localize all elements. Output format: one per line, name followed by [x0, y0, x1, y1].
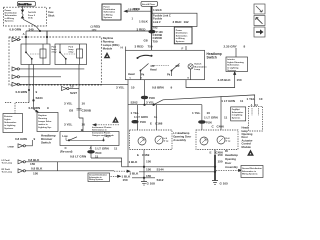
svg-text:Wiring Systems: Wiring Systems	[89, 178, 103, 181]
svg-text:Off: Off	[151, 64, 155, 68]
svg-text:1 BLK: 1 BLK	[153, 8, 163, 12]
labels on dimmer feed	[64, 101, 92, 131]
exterior lights note box	[3, 114, 23, 133]
svg-text:Distribution: Distribution	[104, 8, 116, 11]
headlamp dimmer switch label	[41, 133, 56, 144]
relay 1 box	[21, 44, 50, 65]
warning triangle DRL	[104, 52, 111, 58]
svg-text:Module: Module	[242, 145, 252, 149]
dashed arrow from ground box	[111, 174, 132, 182]
svg-text:Opening: Opening	[225, 157, 236, 161]
svg-text:0.8 LT GRN: 0.8 LT GRN	[70, 154, 86, 158]
svg-text:A: A	[23, 32, 25, 36]
wire down to Rt door C456	[212, 96, 225, 130]
headlamp opening door actuator dashed box	[249, 104, 263, 131]
svg-text:Lights Dimming: Lights Dimming	[227, 61, 244, 64]
svg-text:150: 150	[146, 168, 151, 172]
svg-text:15 A: 15 A	[28, 17, 33, 20]
svg-text:C456: C456	[217, 125, 225, 129]
svg-text:relay: relay	[52, 50, 58, 53]
fusible link callout box	[152, 13, 198, 26]
svg-text:Wiring Systems: Wiring Systems	[242, 173, 258, 176]
thick ground wire right	[214, 150, 223, 181]
svg-text:(Re-used): (Re-used)	[60, 149, 72, 153]
svg-text:10: 10	[207, 111, 211, 115]
arrow 18 RED into note box	[124, 7, 150, 20]
connector P100 on feed	[149, 30, 164, 34]
actuator label column	[242, 126, 253, 149]
headlamp dimmer switch box	[60, 132, 119, 146]
svg-text:Schematics: Schematics	[104, 11, 116, 14]
svg-text:10: 10	[259, 97, 263, 101]
svg-text:G 108: G 108	[147, 181, 156, 185]
dimmer terminals	[60, 146, 118, 153]
svg-text:(1 RED): (1 RED)	[91, 24, 101, 28]
svg-text:9: 9	[47, 106, 49, 110]
svg-text:9: 9	[171, 85, 173, 89]
svg-text:3 RED: 3 RED	[137, 27, 147, 31]
svg-text:C169: C169	[142, 153, 150, 157]
svg-text:11: 11	[95, 154, 99, 158]
instrument cluster note	[92, 126, 115, 137]
Rt headlamp opening door assembly dashed box	[196, 130, 238, 150]
relay 2 coil	[77, 44, 83, 65]
thick feed wire 3 RED	[151, 6, 153, 50]
svg-text:S234: S234	[36, 96, 43, 100]
switch bottom terminal letters	[130, 78, 190, 80]
svg-text:Daytime: Daytime	[103, 36, 114, 40]
hot at all times box middle	[141, 1, 158, 6]
svg-text:4.35 BLK: 4.35 BLK	[218, 78, 232, 82]
svg-text:Block: Block	[48, 15, 55, 17]
feed wire labels	[134, 7, 189, 44]
feed dots on DRL box edge	[25, 31, 48, 45]
CHMSL connector	[8, 137, 36, 149]
svg-text:11: 11	[114, 146, 118, 150]
svg-text:9: 9	[34, 137, 36, 141]
DRL module dashed box	[9, 37, 101, 85]
connector triangle row3	[12, 75, 61, 79]
relay 2 box	[55, 44, 87, 65]
svg-text:Switch: Switch	[207, 56, 217, 60]
svg-text:G8: G8	[69, 109, 73, 113]
warning triangle instrument	[112, 117, 119, 123]
ground distribution note box right	[241, 166, 263, 178]
connector triangle top left	[12, 38, 21, 42]
svg-text:in Lighting: in Lighting	[232, 114, 243, 117]
svg-text:Turn Lamp: Turn Lamp	[2, 161, 13, 164]
wire E C168 to Lt door	[150, 105, 163, 130]
svg-text:in Wiring: in Wiring	[5, 18, 15, 20]
svg-text:3 YEL: 3 YEL	[64, 123, 73, 127]
svg-text:3 RED: 3 RED	[135, 45, 145, 49]
connector triangle S227	[62, 85, 80, 95]
svg-text:1 YEL: 1 YEL	[247, 97, 256, 101]
svg-text:Distribution: Distribution	[5, 12, 18, 15]
svg-text:Headlamp: Headlamp	[225, 153, 238, 157]
switch contact 1	[128, 64, 157, 81]
svg-text:Opening Door: Opening Door	[173, 134, 191, 138]
power distribution note box right of feed	[174, 27, 192, 44]
svg-text:150: 150	[237, 78, 242, 82]
svg-text:Running: Running	[38, 118, 48, 120]
wire 2.35 GRY 8	[224, 44, 246, 57]
svg-text:Off: Off	[176, 64, 180, 68]
svg-text:E: E	[210, 151, 212, 155]
hot at all times box left	[17, 1, 35, 6]
svg-text:Pk: Pk	[141, 72, 145, 76]
svg-text:Lamps Sche-: Lamps Sche-	[38, 121, 52, 123]
svg-text:3 YEL: 3 YEL	[146, 100, 155, 104]
svg-text:Systems: Systems	[104, 16, 113, 19]
svg-text:Systems: Systems	[4, 127, 14, 130]
svg-text:Schematics: Schematics	[4, 121, 17, 124]
relay 2 contact	[59, 44, 76, 65]
svg-text:RED: RED	[134, 7, 141, 11]
long ground wire L1	[122, 166, 215, 168]
Rt door motor 1	[200, 137, 208, 145]
relay 2 inner label	[69, 46, 75, 54]
svg-text:in Lighting: in Lighting	[4, 124, 16, 127]
dimmer A wire with P100	[70, 146, 122, 167]
power distribution note left	[5, 10, 18, 23]
svg-text:S144: S144	[157, 167, 164, 171]
dashed arrow into L2	[114, 170, 139, 176]
svg-text:C168: C168	[155, 122, 163, 126]
wire Rt box bottom to thick ground	[214, 150, 216, 156]
svg-text:F: F	[182, 47, 184, 51]
LF park turn lamp connector	[2, 158, 122, 166]
wire switch E down with P100	[141, 80, 172, 105]
interior lights dimming note box	[226, 57, 248, 72]
svg-text:0.8 ORN: 0.8 ORN	[9, 27, 21, 31]
switch slider blade	[137, 55, 152, 59]
ground distribution note box left	[88, 173, 110, 182]
fuse TAIL L/N Fuse 2 15A	[21, 6, 36, 19]
svg-text:S112: S112	[157, 178, 164, 182]
viewer button zoom-out	[254, 4, 265, 14]
wire relay1 down left	[28, 65, 29, 103]
svg-text:1 LT GRN: 1 LT GRN	[95, 146, 109, 150]
headlamp switch box	[126, 50, 205, 79]
svg-text:Systems: Systems	[227, 69, 237, 72]
relay 1 coil	[40, 44, 46, 65]
power distribution note box top middle	[102, 4, 121, 20]
wire to actuator C1	[154, 95, 263, 106]
svg-text:CHSM: CHSM	[8, 146, 14, 148]
svg-text:relay: relay	[69, 50, 75, 53]
svg-text:Lt Headlamp: Lt Headlamp	[173, 131, 189, 135]
svg-text:Schematics: Schematics	[227, 64, 240, 67]
svg-text:in Lighting: in Lighting	[227, 66, 239, 69]
svg-text:E: E	[150, 122, 152, 126]
svg-text:1 YEL: 1 YEL	[192, 111, 201, 115]
switch contact 2	[152, 64, 180, 77]
warning triangle actuator	[247, 150, 254, 156]
svg-text:Switch: Switch	[41, 140, 51, 144]
svg-text:Door: Door	[225, 161, 231, 165]
svg-text:10: 10	[131, 85, 135, 89]
LF drop wire	[57, 162, 59, 171]
dashed to ground dist box right	[216, 169, 242, 171]
svg-text:Turn Lamp: Turn Lamp	[2, 170, 13, 173]
svg-text:11: 11	[154, 115, 158, 119]
wire P100 to Lt door	[132, 105, 158, 130]
svg-text:Power: Power	[176, 29, 182, 32]
svg-text:Hot at All Times: Hot at All Times	[18, 3, 31, 6]
svg-text:0.8 BLK: 0.8 BLK	[31, 167, 43, 171]
fog lamps note box	[231, 107, 246, 121]
svg-text:11: 11	[240, 99, 244, 103]
headlamp switch label	[207, 52, 222, 60]
svg-text:1 LT GRN: 1 LT GRN	[134, 115, 148, 119]
svg-text:Assembly: Assembly	[225, 165, 238, 169]
svg-text:Running: Running	[103, 39, 114, 43]
svg-text:9: 9	[36, 90, 38, 94]
Lt door motor 1	[138, 137, 146, 145]
wire relay1 down right S234	[33, 65, 35, 110]
svg-text:Systems: Systems	[232, 116, 241, 119]
svg-text:in Wiring: in Wiring	[176, 37, 186, 40]
svg-text:Fuse 2: Fuse 2	[28, 15, 36, 17]
wire down to Rt door P100	[192, 105, 228, 130]
svg-text:192: 192	[184, 20, 189, 24]
svg-text:Instrument Panel,: Instrument Panel,	[92, 131, 111, 134]
svg-text:H: H	[121, 45, 123, 49]
svg-text:0.8 BLK: 0.8 BLK	[28, 158, 40, 162]
svg-text:3 YEL: 3 YEL	[116, 85, 125, 89]
svg-text:792: 792	[153, 26, 158, 30]
svg-text:Pk: Pk	[167, 72, 171, 76]
switch terminal H	[121, 45, 126, 50]
svg-text:1 BLK: 1 BLK	[139, 19, 149, 23]
svg-text:matics in: matics in	[38, 123, 48, 126]
ground G105	[212, 181, 228, 186]
arrow to DRL schematics box	[29, 106, 50, 112]
dashed arrow instrument cluster	[93, 124, 119, 126]
wire switch C down long (3 YEL 10)	[116, 80, 139, 167]
svg-text:0.8 BRN: 0.8 BRN	[152, 85, 164, 89]
wire relay2 to dimmer	[79, 65, 83, 132]
E C456 label under Rt box	[210, 151, 224, 155]
svg-text:Exterior: Exterior	[4, 115, 12, 118]
svg-text:0.8 BRN: 0.8 BRN	[29, 106, 41, 110]
svg-text:150: 150	[218, 153, 223, 157]
long ground wire L2	[139, 171, 215, 173]
svg-text:Tail L/N: Tail L/N	[28, 12, 36, 14]
svg-text:Fog/Apt: Fog/Apt	[232, 108, 240, 111]
Rt door motor 2	[217, 136, 231, 144]
svg-text:10: 10	[82, 123, 86, 127]
svg-text:Lamp: Lamp	[194, 69, 200, 71]
svg-text:Schematics: Schematics	[232, 111, 244, 114]
dimmer contacts	[62, 134, 111, 141]
svg-text:2.35 GRY: 2.35 GRY	[224, 44, 237, 48]
Lt headlamp opening door assembly dashed box	[130, 130, 173, 150]
svg-text:150: 150	[123, 178, 128, 182]
svg-text:S227: S227	[70, 91, 77, 95]
switch illumination lamp	[188, 63, 207, 80]
svg-text:Gauges and Console: Gauges and Console	[92, 135, 115, 137]
svg-text:Distribution: Distribution	[176, 32, 188, 35]
svg-text:G 105: G 105	[220, 181, 229, 185]
svg-text:Daytime: Daytime	[38, 114, 47, 117]
relay label between	[52, 46, 58, 54]
svg-text:3 BLK: 3 BLK	[130, 172, 140, 176]
switch terminal F	[182, 46, 187, 51]
fuse block dashed box	[3, 7, 46, 26]
svg-text:Switch: Switch	[194, 63, 202, 66]
connector triangle row4	[12, 82, 128, 86]
svg-text:8: 8	[244, 44, 246, 48]
wire Lt door to ground	[129, 150, 164, 183]
svg-text:Lamps (DRL): Lamps (DRL)	[103, 43, 120, 47]
svg-text:1372: 1372	[92, 30, 98, 32]
svg-text:340: 340	[29, 27, 34, 31]
svg-text:Low: Low	[62, 134, 68, 138]
svg-text:E: E	[137, 153, 139, 157]
svg-text:3 RED: 3 RED	[173, 20, 183, 24]
splice S202 wire	[128, 100, 202, 105]
svg-text:150: 150	[218, 159, 223, 163]
svg-text:750: 750	[153, 40, 158, 44]
svg-text:P100: P100	[140, 121, 146, 124]
C200B connector ticks	[77, 109, 82, 111]
wire 0.8 ORN 340	[9, 20, 151, 38]
Lt door motor 2	[155, 136, 169, 144]
svg-text:G8: G8	[144, 38, 148, 42]
svg-text:Ground Distribution: Ground Distribution	[242, 167, 262, 170]
svg-text:Fuse: Fuse	[48, 12, 54, 14]
svg-text:Head: Head	[150, 67, 157, 71]
svg-text:Lights: Lights	[4, 118, 11, 121]
svg-text:10: 10	[70, 85, 74, 89]
svg-text:1 LT GRN: 1 LT GRN	[221, 99, 235, 103]
relay 1 contact	[25, 44, 40, 65]
svg-text:Schematics: Schematics	[5, 14, 18, 17]
wire 4.35 BLK 150 from switch D to dimming box	[186, 72, 242, 88]
svg-text:Hot at All Times: Hot at All Times	[142, 3, 155, 6]
svg-text:Power: Power	[5, 10, 12, 12]
dashed link to exterior lights box	[5, 103, 29, 114]
connector triangle row2	[12, 67, 84, 71]
viewer button zoom-in	[254, 16, 265, 26]
DRL module label	[103, 36, 120, 51]
svg-text:3 YEL: 3 YEL	[64, 101, 73, 105]
svg-text:C200B: C200B	[82, 109, 92, 113]
svg-text:11: 11	[224, 116, 228, 120]
svg-text:Schematics: Schematics	[176, 34, 188, 37]
svg-text:Rt: Rt	[225, 149, 228, 153]
wire label (1 RED) 1372	[91, 24, 101, 31]
svg-text:Power: Power	[104, 5, 110, 8]
svg-text:1 LT GRN: 1 LT GRN	[204, 116, 218, 120]
svg-text:S202: S202	[131, 101, 138, 105]
feed label 3 RED 750	[135, 45, 153, 49]
svg-text:150: 150	[146, 159, 151, 163]
svg-text:0.8 GRN: 0.8 GRN	[15, 137, 27, 141]
Rt door assembly label	[225, 149, 238, 169]
fuse block label	[48, 8, 55, 17]
svg-text:Head: Head	[128, 72, 135, 76]
svg-text:0.8 BRN: 0.8 BRN	[16, 90, 28, 94]
svg-text:Systems: Systems	[5, 20, 15, 23]
short wire L3	[132, 177, 155, 179]
svg-text:Schematics in: Schematics in	[242, 170, 257, 173]
svg-text:150: 150	[146, 174, 151, 178]
svg-text:Lighting Sys: Lighting Sys	[38, 126, 52, 129]
svg-text:150: 150	[33, 171, 38, 175]
svg-text:A: A	[251, 104, 253, 107]
label 0.8 BRN 9	[16, 90, 43, 100]
svg-text:Module: Module	[103, 46, 113, 50]
svg-text:Interior: Interior	[227, 58, 235, 61]
svg-text:10: 10	[82, 101, 86, 105]
svg-text:150: 150	[30, 162, 35, 166]
ground G108	[141, 181, 155, 185]
DRL schematics note box	[37, 113, 58, 132]
viewer button next arrow	[254, 27, 265, 37]
svg-text:in Wiring: in Wiring	[104, 13, 114, 16]
Lt door assembly label	[173, 131, 191, 142]
svg-text:Schematics in: Schematics in	[92, 129, 107, 132]
svg-text:750: 750	[148, 45, 153, 49]
svg-text:Instrument Cluster: Instrument Cluster	[92, 126, 112, 129]
RF park turn lamp connector	[2, 167, 115, 176]
svg-text:1 BLK: 1 BLK	[129, 160, 139, 164]
svg-text:Link Z: Link Z	[153, 20, 161, 24]
svg-text:Systems: Systems	[176, 40, 185, 43]
svg-text:Assembly: Assembly	[173, 138, 186, 142]
svg-text:Illumination: Illumination	[194, 65, 207, 68]
